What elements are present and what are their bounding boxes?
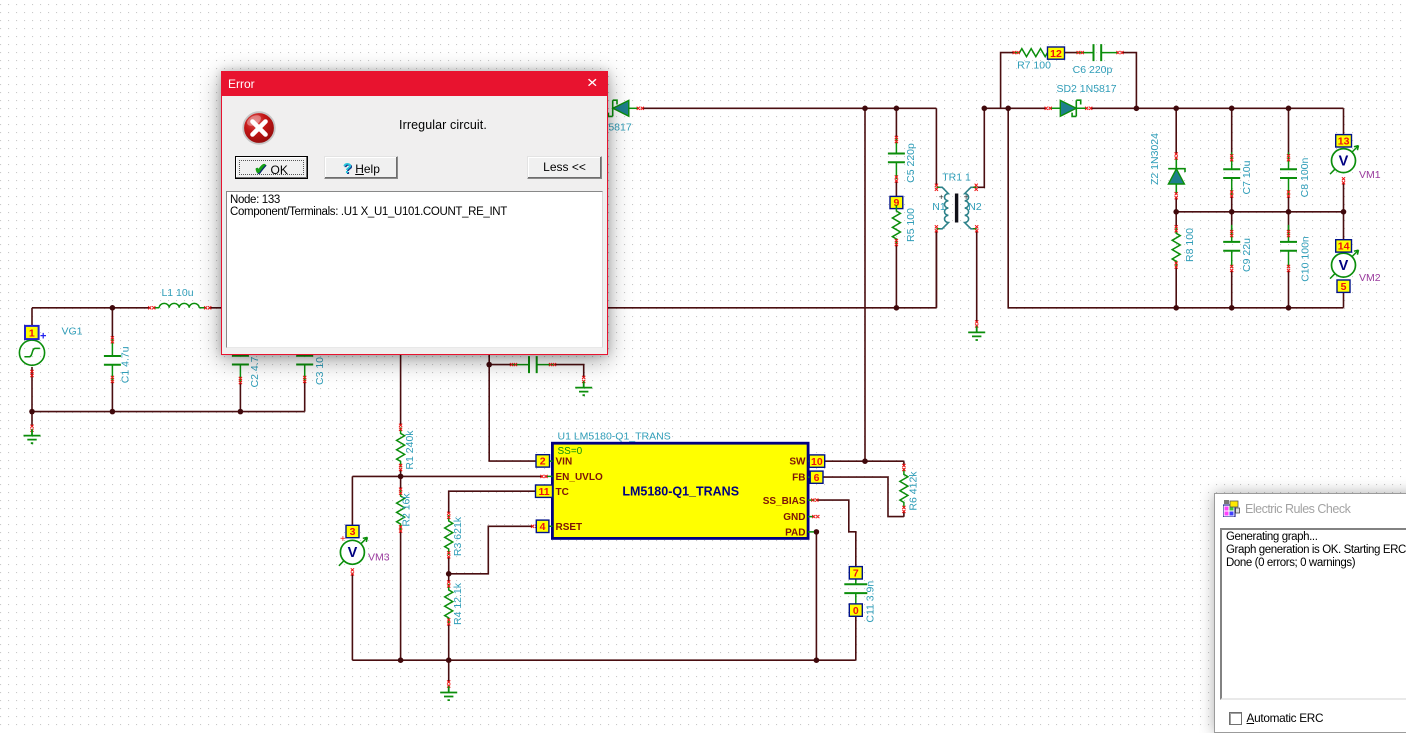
node 9 label box — [890, 196, 903, 208]
terminal mark L1 right — [204, 306, 211, 309]
svg-text:C5 220p: C5 220p — [905, 143, 917, 183]
wire FB to R6 bottom — [823, 477, 904, 516]
wire R3 bottom — [448, 557, 450, 574]
zener diode Z2 1N3024 — [1149, 133, 1185, 199]
capacitor C9 — [1223, 225, 1240, 268]
svg-text:R7 100: R7 100 — [1017, 60, 1051, 72]
wire N2 bottom to ground — [976, 231, 978, 323]
wire SD1 cathode line to transformer N1 — [642, 108, 937, 185]
pin stubs green — [546, 461, 815, 532]
svg-text:VG1: VG1 — [62, 326, 83, 338]
svg-text:VIN: VIN — [556, 457, 573, 468]
terminal mark N1 top — [935, 184, 938, 191]
terminal mark N1 bottom — [935, 225, 938, 232]
svg-text:C1 4.7u: C1 4.7u — [120, 346, 132, 383]
svg-text:13: 13 — [1338, 136, 1350, 148]
svg-text:0: 0 — [853, 605, 859, 617]
wire snubber loop R7 C6 — [1001, 53, 1137, 109]
transformer TR1 — [940, 187, 974, 229]
diode SD1 1N5817 (partially behind dialog) — [608, 100, 644, 133]
resistor R7 — [1014, 49, 1054, 57]
svg-text:TC: TC — [556, 487, 569, 498]
svg-text:10: 10 — [811, 456, 823, 468]
svg-text:7: 7 — [853, 568, 859, 580]
wires top nets — [642, 53, 1344, 322]
wire R4 top — [448, 574, 450, 582]
node dot snubber right — [1134, 106, 1140, 112]
svg-text:14: 14 — [1338, 241, 1350, 253]
node dot C7 top — [1229, 106, 1235, 112]
wire VG1 ground stem — [31, 412, 33, 426]
pin number box 11 (TC) — [536, 485, 553, 497]
svg-text:R5 100: R5 100 — [905, 208, 917, 242]
svg-text:LM5180-Q1_TRANS: LM5180-Q1_TRANS — [622, 485, 739, 499]
pin names left — [556, 457, 603, 533]
node dot R3 R4 RSET — [446, 571, 452, 577]
junction dots top/right — [862, 106, 1346, 311]
pin names right — [763, 457, 806, 539]
junction dots left/middle — [29, 305, 868, 663]
pin number box 6 (FB) — [810, 471, 823, 483]
svg-text:SW: SW — [789, 457, 806, 468]
svg-text:U1 LM5180-Q1_TRANS: U1 LM5180-Q1_TRANS — [558, 431, 671, 443]
wire N2 top link — [978, 108, 985, 187]
svg-text:C2 4.7: C2 4.7 — [249, 356, 261, 387]
terminal mark VG1 bottom — [30, 370, 33, 377]
capacitor C6 — [1077, 44, 1119, 61]
node dot R8 bottom — [1173, 305, 1179, 311]
capacitor C3 — [296, 339, 313, 382]
wire Z2 column — [1175, 108, 1177, 212]
svg-text:C10 100n: C10 100n — [1300, 236, 1312, 282]
terminal mark L1 left — [148, 306, 155, 309]
IC U1 LM5180-Q1_TRANS body — [552, 443, 808, 538]
transformer core — [955, 194, 958, 223]
svg-text:6: 6 — [814, 472, 820, 484]
svg-text:3: 3 — [350, 526, 356, 538]
wire decoupling cap branch — [489, 364, 513, 366]
svg-text:SD2 1N5817: SD2 1N5817 — [1056, 83, 1116, 95]
svg-text:VM1: VM1 — [1359, 169, 1381, 181]
Electric Rules Check window — [1214, 493, 1406, 733]
wire N1 bottom drop — [935, 231, 937, 308]
svg-text:+: + — [964, 192, 969, 202]
wire net VIN horizontal (VG1 to L1) — [32, 307, 149, 309]
svg-text:RSET: RSET — [556, 522, 583, 533]
node 1 label box (selected) — [25, 326, 46, 343]
wire bus ground stem — [448, 660, 450, 682]
svg-text:R4 12.1k: R4 12.1k — [452, 582, 464, 625]
resistor R6 — [900, 468, 908, 508]
node dot C9 bottom — [1229, 305, 1235, 311]
resistor R4 — [445, 584, 453, 624]
svg-text:+: + — [939, 192, 944, 202]
node dot VM mid — [1341, 209, 1347, 215]
pin number box 4 (RSET) — [531, 525, 538, 528]
svg-text:5817: 5817 — [608, 122, 632, 134]
node dot gnd at C2 — [238, 409, 244, 415]
wire PAD drop — [815, 532, 817, 660]
terminal mark cap gnd — [582, 376, 585, 383]
svg-text:2: 2 — [540, 456, 546, 468]
voltmeter VM3 — [339, 537, 368, 566]
resistor R3 — [445, 515, 453, 555]
capacitor C1 — [104, 339, 121, 382]
terminal mark EN_UVLO — [540, 475, 547, 478]
diode SD2 1N5817 — [1045, 100, 1093, 116]
wire VIN drop to pin VIN — [489, 354, 536, 461]
wire EN_UVLO horizontal — [352, 475, 542, 477]
wire C2 drop — [239, 381, 241, 412]
capacitor C2 — [232, 339, 249, 382]
terminal mark GND — [812, 515, 819, 518]
svg-text:5: 5 — [1341, 281, 1347, 293]
inductor L1 — [159, 303, 199, 307]
svg-text:C7 10u: C7 10u — [1241, 160, 1253, 194]
wire C1 branch bottom — [111, 379, 113, 411]
node dot Z2 top — [1173, 106, 1179, 112]
voltmeter VM1 — [1330, 146, 1359, 175]
svg-text:R2 16k: R2 16k — [401, 493, 413, 527]
svg-text:VM3: VM3 — [368, 551, 390, 563]
svg-text:C6 220p: C6 220p — [1073, 64, 1113, 76]
terminal mark VG1 gnd — [30, 425, 33, 432]
wire output drop to bottom rail — [1008, 108, 1343, 307]
wire SS_BIAS to C11 — [816, 500, 856, 567]
node dot C5 top — [894, 106, 900, 112]
node dot gnd at C1 — [110, 409, 116, 415]
ground below N2 — [968, 326, 985, 340]
svg-text:L1 10u: L1 10u — [161, 287, 193, 299]
terminal mark N2 top — [975, 184, 978, 191]
wire secondary main line — [984, 108, 1343, 134]
node dot PAD pin — [814, 529, 820, 535]
svg-text:R3 621k: R3 621k — [452, 516, 464, 556]
voltage generator VG1 — [19, 340, 44, 365]
svg-text:12: 12 — [1050, 48, 1062, 60]
pin number box 10 (SW) — [809, 455, 825, 467]
svg-text:SS_BIAS: SS_BIAS — [763, 496, 806, 507]
wire VM3 bottom lead — [351, 574, 353, 661]
svg-text:+: + — [340, 534, 346, 545]
ground right of C4 — [575, 381, 592, 395]
node dot SW drop top — [862, 106, 868, 112]
svg-text:GND: GND — [783, 512, 805, 523]
svg-text:C9 22u: C9 22u — [1241, 238, 1253, 272]
ERC icon — [1223, 500, 1240, 517]
pin number box 2 (VIN) — [536, 455, 550, 467]
svg-text:N2: N2 — [968, 201, 982, 213]
svg-text:1: 1 — [29, 327, 35, 339]
ground below bus — [447, 680, 450, 687]
wire decoupling cap to ground — [554, 365, 584, 378]
wire VM1 bottom lead — [1343, 183, 1345, 212]
wire TC to R3 top — [449, 491, 536, 513]
wire C5 R5 column — [895, 108, 897, 307]
node 12 label box — [1048, 47, 1065, 59]
wire VG1 bottom lead — [31, 367, 33, 412]
decoupling capacitor C4 — [512, 356, 554, 373]
wire ground bus left — [32, 379, 305, 411]
capacitor C11 with node boxes 7 / 0 — [855, 579, 857, 605]
node dot output drop — [1005, 106, 1011, 112]
capacitor C5 — [888, 137, 905, 180]
wire bottom bus — [352, 616, 855, 661]
wire VG1 top riser — [31, 308, 33, 327]
svg-text:C8 100n: C8 100n — [1299, 157, 1311, 197]
node dot SW drop — [862, 458, 868, 464]
wire R6 bottom stub — [903, 511, 905, 516]
svg-text:VM2: VM2 — [1359, 272, 1381, 284]
wire R8 — [1175, 212, 1177, 308]
svg-text:4: 4 — [540, 521, 546, 533]
wire VM1 VM2 middle link — [1343, 212, 1345, 240]
resistor R8 — [1172, 227, 1180, 267]
ground below VG1 — [24, 429, 41, 443]
node dot bus R2 — [398, 657, 404, 663]
wire R2 bottom to bus — [400, 531, 402, 660]
svg-text:TR1 1: TR1 1 — [942, 172, 971, 184]
svg-text:EN_UVLO: EN_UVLO — [556, 472, 603, 483]
capacitor C7 — [1223, 152, 1240, 195]
svg-text:FB: FB — [792, 473, 805, 484]
node dot R5 bottom — [894, 305, 900, 311]
node dot VIN cap branch — [486, 362, 492, 368]
error icon — [242, 111, 276, 145]
node dot bus R4 — [446, 657, 452, 663]
capacitor C8 — [1280, 152, 1297, 195]
wire R1 to EN_UVLO junction — [400, 469, 402, 489]
terminal mark SS_BIAS — [811, 499, 818, 502]
wire C8 column — [1288, 108, 1290, 212]
wire C9 column — [1231, 212, 1233, 308]
node dot EN_UVLO / R1 R2 — [398, 474, 404, 480]
node dot C7 C9 mid — [1229, 209, 1235, 215]
svg-text:SS=0: SS=0 — [558, 446, 583, 457]
svg-text:R8 100: R8 100 — [1184, 228, 1196, 262]
wire SW drop from primary — [864, 108, 866, 461]
svg-text:+: + — [40, 331, 46, 343]
node dot gnd at VG1 — [29, 409, 35, 415]
wire C7 column — [1231, 108, 1233, 212]
voltmeter VM2 — [1330, 250, 1359, 279]
node dot C8 C10 mid — [1286, 209, 1292, 215]
svg-text:R6 412k: R6 412k — [908, 471, 920, 511]
resistor R5 — [892, 205, 900, 245]
resistor R2 — [397, 490, 405, 530]
node dot N2 link — [982, 106, 988, 112]
resistor R1 — [397, 427, 405, 467]
capacitor C10 — [1280, 225, 1297, 268]
terminal mark N2 ground — [975, 320, 978, 327]
terminal mark N2 bottom — [975, 225, 978, 232]
wire C10 column — [1288, 212, 1290, 308]
wire mid output rail — [1176, 211, 1343, 213]
wire C1 branch top — [111, 308, 113, 340]
node dot C8 top — [1286, 106, 1292, 112]
node dot VIN at C1 — [110, 305, 116, 311]
Error dialog — [221, 71, 608, 355]
svg-text:Z2 1N3024: Z2 1N3024 — [1149, 133, 1161, 185]
svg-text:C11 3.9n: C11 3.9n — [865, 581, 877, 623]
wire SW to R6 — [825, 461, 904, 465]
wire R1 column top — [400, 354, 402, 426]
svg-text:11: 11 — [538, 486, 549, 498]
svg-text:PAD: PAD — [785, 527, 805, 538]
svg-text:R1 240k: R1 240k — [404, 430, 416, 470]
node dot C10 bottom — [1286, 305, 1292, 311]
svg-text:C3 10: C3 10 — [314, 357, 326, 385]
node dot Z2 mid — [1173, 209, 1179, 215]
wire R4 bottom to bus — [448, 624, 450, 660]
node dot bus PAD — [814, 657, 820, 663]
wire net VIN (L1 right, behind dialog, to transformer N1 corner) — [209, 231, 936, 308]
svg-text:N1: N1 — [932, 201, 946, 213]
wire RSET link — [449, 526, 534, 574]
wire VM3 top lead — [351, 476, 353, 525]
